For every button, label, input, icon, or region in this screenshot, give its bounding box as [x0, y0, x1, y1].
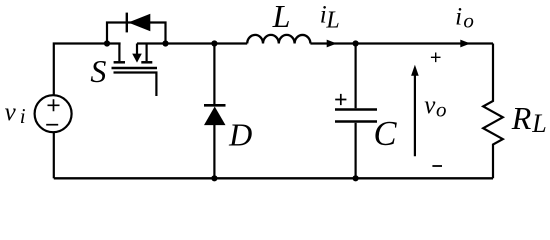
resistor R_L: [483, 44, 503, 179]
label L: [272, 0, 291, 34]
svg-text:o: o: [463, 9, 474, 33]
label i_L: [320, 2, 340, 34]
node C (diode top junction): [211, 40, 217, 46]
svg-text:v: v: [5, 99, 17, 126]
transistor S (MOSFET): [112, 44, 158, 97]
label i_o: [455, 4, 474, 33]
svg-text:L: L: [531, 109, 546, 138]
voltage source v_i: [35, 95, 72, 132]
voltage arrow v_o: [411, 65, 419, 157]
svg-text:L: L: [272, 0, 291, 34]
current arrow i_L: [327, 40, 337, 48]
wire: bottom rail: [54, 177, 493, 179]
node E (capacitor top junction): [353, 40, 359, 46]
wire: inductor to output node: [310, 42, 493, 44]
node D (diode bottom junction): [211, 175, 217, 181]
wire: switch node segment: [137, 42, 247, 44]
svg-text:R: R: [511, 100, 532, 136]
label R_L: [511, 100, 547, 138]
label v_o: [424, 92, 446, 122]
capacitor plus mark: [335, 94, 346, 105]
label C: [374, 115, 398, 153]
wire: body-diode bridge: [107, 23, 166, 44]
node A (drain junction): [104, 40, 110, 46]
wire: source top to MOSFET drain: [54, 44, 121, 96]
diode D: [204, 44, 226, 179]
svg-text:C: C: [374, 115, 398, 153]
wire: source bottom to ground rail: [53, 132, 55, 178]
svg-text:o: o: [436, 98, 447, 122]
svg-text:v: v: [424, 92, 436, 119]
inductor L: [247, 35, 310, 44]
body diode of switch S: [127, 13, 151, 33]
svg-text:i: i: [20, 104, 26, 128]
label S: [90, 53, 106, 89]
minus mark (output polarity): [432, 165, 442, 167]
svg-text:S: S: [90, 53, 106, 89]
capacitor C: [335, 44, 377, 179]
svg-text:D: D: [228, 117, 252, 153]
node F (capacitor bottom junction): [353, 175, 359, 181]
plus mark (output polarity): [431, 53, 441, 63]
node B (source junction): [162, 40, 168, 46]
svg-text:i: i: [455, 4, 462, 31]
svg-text:L: L: [325, 8, 339, 34]
label D: [228, 117, 252, 153]
current arrow i_o: [460, 40, 470, 48]
label v_i: [5, 99, 26, 128]
